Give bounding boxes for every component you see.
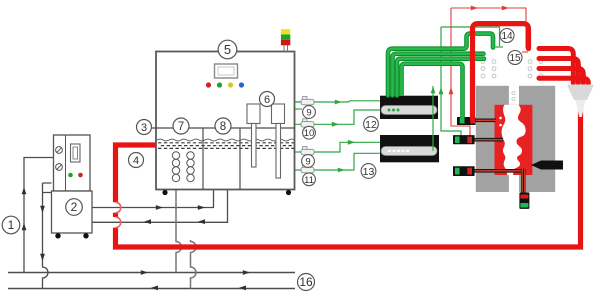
pump 1 xyxy=(247,104,260,167)
wire unit outlet 4 to manifold 13 bar xyxy=(295,153,382,172)
wire unit outlet 3 to manifold 13 top xyxy=(295,140,381,152)
svg-text:6: 6 xyxy=(264,94,270,106)
wire thin red top run to red spare cap xyxy=(451,6,528,52)
decorative holes above plates xyxy=(481,60,543,78)
svg-text:8: 8 xyxy=(220,121,226,133)
wire chilled water supply chiller to unit tank (y=207.5) xyxy=(90,189,214,210)
mold fixed platen (left plate) xyxy=(476,86,509,192)
svg-text:9: 9 xyxy=(306,108,311,119)
unit indicator dots xyxy=(206,82,244,87)
chiller gauge 1 xyxy=(56,147,63,154)
red spare hose 4 xyxy=(539,78,588,83)
hose red supply loop over mold with free cap xyxy=(473,24,529,118)
hose green h1 spare up-over with cap xyxy=(388,34,493,96)
label 1 xyxy=(2,216,20,234)
cooling drill line row3 xyxy=(475,169,521,173)
unit right edge coupling fitting 3 xyxy=(301,147,314,155)
label 5 xyxy=(218,40,237,59)
svg-text:3: 3 xyxy=(141,122,147,134)
tank partition right xyxy=(239,128,241,190)
svg-text:14: 14 xyxy=(501,31,513,42)
label 7 xyxy=(173,118,189,134)
chiller wheels xyxy=(55,233,88,238)
wire factory cooling return main (bottom line 2) xyxy=(8,286,295,291)
heater bubbles column 2 xyxy=(187,152,194,182)
wire thin red spare loop riser to mold fitting row2 xyxy=(449,8,470,136)
wire thin green manifold13 bar to spare area (x=433 over manifold 12) xyxy=(431,86,436,151)
unit right edge coupling fitting 1 xyxy=(295,97,315,105)
hose green supply h4 manifold to mold row1 xyxy=(402,64,463,118)
chiller lower cabinet xyxy=(52,191,93,233)
red spare hose 2 xyxy=(539,59,578,84)
unit display panel xyxy=(215,64,238,78)
pipe main red loop: tank inlet, down, along bottom, up to hose bundle funnel xyxy=(116,104,581,247)
svg-text:10: 10 xyxy=(304,128,315,139)
temperature control unit main cabinet (5) xyxy=(156,52,295,190)
mold cavity block (red) xyxy=(495,105,533,175)
chiller display xyxy=(71,144,81,162)
injection nozzle xyxy=(531,161,563,170)
stack light on unit xyxy=(281,29,290,51)
svg-text:12: 12 xyxy=(365,119,377,131)
unit feet xyxy=(162,190,167,195)
tank water hatch xyxy=(158,143,294,149)
svg-text:13: 13 xyxy=(363,166,375,178)
hose green h3 spare with cap xyxy=(397,59,484,96)
svg-text:7: 7 xyxy=(178,121,184,133)
wire unit outlet 2 to manifold 12 bar xyxy=(295,110,382,127)
label 9a xyxy=(303,106,316,119)
wire tank overflow to return main (x=190.5) xyxy=(191,240,197,289)
mold fitting row3 block xyxy=(453,166,475,176)
cooling drill line row1 xyxy=(476,119,497,123)
cooling drill line row2 xyxy=(475,138,503,142)
unit right edge coupling fitting 4 xyxy=(301,165,314,173)
tank shelf line xyxy=(151,127,295,129)
label 4 xyxy=(129,153,144,168)
pipe red jump arc over chiller return line xyxy=(116,217,121,228)
label 2 xyxy=(66,199,83,216)
mold bottom hose fitting xyxy=(519,192,529,209)
label 12 xyxy=(364,117,379,132)
label 8 xyxy=(215,118,231,134)
chiller gauge 2 xyxy=(56,164,63,171)
gap holes xyxy=(512,91,515,100)
svg-text:1: 1 xyxy=(8,218,15,232)
label 15 xyxy=(508,51,522,65)
molded part silhouette (white) xyxy=(502,105,526,175)
label 10 xyxy=(303,126,316,139)
chiller divider xyxy=(65,135,67,191)
wire factory cooling supply main (bottom line 1) xyxy=(8,270,295,275)
chiller indicator dots xyxy=(68,173,73,178)
label 14 xyxy=(500,29,514,43)
manifold 12 body xyxy=(380,96,438,119)
red spare hose 1 xyxy=(539,49,573,84)
pipe red jump arc over chiller supply line xyxy=(116,202,121,213)
unit right edge coupling fitting 2 xyxy=(301,119,314,127)
svg-text:4: 4 xyxy=(133,155,139,167)
manifold 13 body xyxy=(380,135,439,162)
label 11 xyxy=(303,173,316,186)
red spare hose 3 xyxy=(539,69,583,84)
label 16 xyxy=(298,274,315,291)
svg-text:2: 2 xyxy=(71,200,78,214)
hose bundle holder funnel xyxy=(567,85,593,118)
tank partition left xyxy=(202,128,204,190)
svg-text:11: 11 xyxy=(304,175,314,186)
wire chilled water return unit to chiller (y=222.3) xyxy=(90,189,228,224)
heater bubbles column 1 xyxy=(172,152,179,182)
pump 2 xyxy=(272,104,285,178)
mold fitting row2 block xyxy=(453,135,475,144)
tank water wavy surface xyxy=(157,139,294,141)
mold fitting row1 block xyxy=(457,117,476,125)
wire tank drain to supply main (x=176) xyxy=(176,182,182,273)
sprue twin lines down xyxy=(522,169,524,193)
wire thin green to green spare cap bracket xyxy=(441,27,503,47)
label 3 xyxy=(137,120,152,135)
wire chiller cooling water outlet (riser x=42.5 with jump over line1) xyxy=(40,183,51,289)
svg-text:9: 9 xyxy=(305,157,310,168)
wire thin green spare loop to mold fitting row2 xyxy=(439,27,461,136)
cavity block inner holes xyxy=(499,117,502,120)
wire chiller cooling water inlet (left riser x=24) xyxy=(22,158,54,273)
wire unit outlet 1 to manifold 12 top xyxy=(295,100,381,105)
label 9b xyxy=(302,155,315,168)
mold moving platen (right plate) xyxy=(519,86,555,192)
svg-text:5: 5 xyxy=(224,42,231,57)
svg-text:16: 16 xyxy=(299,275,313,289)
node green port stub on unit right edge xyxy=(295,108,303,110)
svg-text:15: 15 xyxy=(509,53,521,64)
hose green h2 spare with cap xyxy=(393,54,484,96)
label 13 xyxy=(361,164,376,179)
chiller unit upper cabinet xyxy=(54,135,91,191)
label 6 xyxy=(260,92,275,107)
